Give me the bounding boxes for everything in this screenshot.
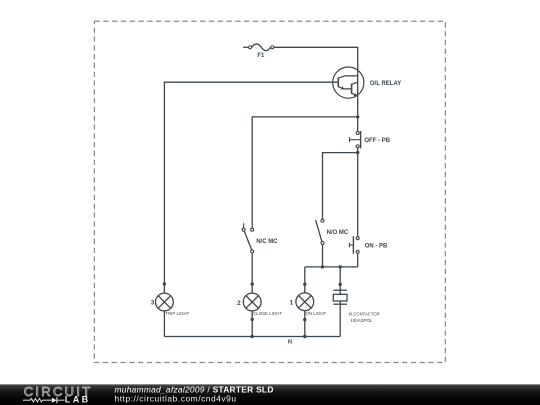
- pushbutton ON-PB (normally open): [349, 236, 388, 254]
- footer bar: [0, 384, 540, 405]
- svg-text:LAB: LAB: [65, 395, 91, 405]
- wire: N/C MC bottom to lamp2: [251, 253, 253, 293]
- fuse F1: [243, 44, 274, 59]
- lamp 2 CLOSE LIGHT: [237, 293, 282, 316]
- wire: OFF-PB bottom junction left then down to N/O MC: [323, 153, 358, 220]
- wire top: fuse output to right column down to OFF-PB: [274, 47, 358, 131]
- junction: bus lamp2 node: [251, 335, 254, 338]
- svg-text:OFF - PB: OFF - PB: [364, 138, 390, 144]
- svg-text:N/C MC: N/C MC: [256, 239, 278, 245]
- svg-text:TRIP LIGHT: TRIP LIGHT: [165, 311, 189, 316]
- wire: rail down to contactor coil: [339, 267, 341, 294]
- coil M.CONTACTOR 100A3POL: [333, 290, 379, 323]
- pushbutton OFF-PB (normally closed): [350, 131, 391, 148]
- footer credit text: [115, 385, 274, 404]
- junction: lamp3 top node: [163, 282, 166, 285]
- svg-text:2: 2: [237, 300, 241, 307]
- svg-text:F1: F1: [257, 53, 265, 59]
- wire: lamp3 bottom to bus: [163, 311, 165, 337]
- svg-text:N/O MC: N/O MC: [327, 230, 349, 236]
- CircuitLab logo: [23, 384, 93, 404]
- wire: coil bottom to bus: [339, 301, 341, 337]
- svg-text:CLOSE LIGHT: CLOSE LIGHT: [253, 311, 282, 316]
- contact N/O MC: [316, 219, 349, 244]
- wire: relay emitter junction left then down to N/C MC: [252, 117, 358, 228]
- svg-text:N: N: [288, 340, 292, 346]
- junction: lamp1 bottom node: [303, 318, 306, 321]
- wire: rail down to lamp1: [304, 267, 306, 293]
- junction: lamp1 top node: [303, 283, 306, 286]
- junction: rail / coil node: [339, 265, 342, 268]
- wire: relay base left to lamp3 column: [164, 82, 338, 293]
- lamp 1 ON LIGHT: [290, 293, 327, 316]
- svg-text:http://circuitlab.com/cnd4v9u: http://circuitlab.com/cnd4v9u: [115, 394, 237, 404]
- svg-text:100A3POL: 100A3POL: [350, 318, 373, 323]
- svg-text:1: 1: [290, 299, 294, 306]
- junction: coil top node: [339, 283, 342, 286]
- wire: lamp2 bottom to bus: [251, 311, 253, 337]
- junction: lamp2 top node: [251, 282, 254, 285]
- svg-text:3: 3: [151, 299, 155, 306]
- wire: OFF-PB bottom to ON-PB top: [357, 148, 359, 237]
- svg-text:O/L RELAY: O/L RELAY: [370, 81, 401, 87]
- wire: N/O MC bottom to rail: [322, 245, 324, 267]
- junction: lamp2 bottom node: [251, 318, 254, 321]
- lamp 3 TRIP LIGHT: [151, 293, 190, 316]
- svg-text:M.CONTACTOR: M.CONTACTOR: [349, 312, 380, 317]
- svg-text:ON - PB: ON - PB: [365, 244, 388, 250]
- overload relay O/L RELAY: [333, 67, 402, 98]
- node N label: [288, 340, 292, 346]
- junction: bus lamp1 node: [303, 335, 306, 338]
- wire: lamp1 bottom to bus: [304, 311, 306, 337]
- contact N/C MC: [242, 223, 278, 253]
- junction: OFF-PB bottom node: [356, 151, 359, 154]
- junction: relay emitter node: [356, 115, 359, 118]
- svg-text:ON LIGHT: ON LIGHT: [306, 311, 327, 316]
- wire: neutral bus N: [164, 336, 340, 338]
- schematic dashed frame: [94, 21, 445, 362]
- wire: horizontal rail under push buttons: [305, 266, 358, 268]
- junction: rail / N-O MC node: [321, 265, 324, 268]
- wire: ON-PB bottom to rail: [357, 253, 359, 267]
